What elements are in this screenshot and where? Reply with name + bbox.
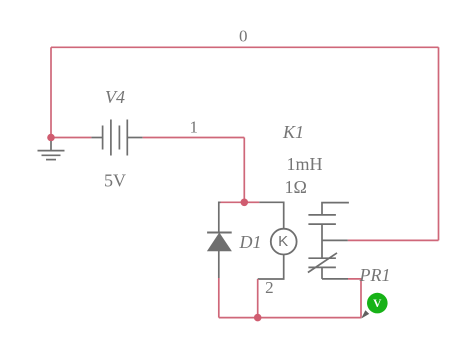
probe PR1 letter V (373, 298, 382, 310)
relay coil K1 pin top (259, 202, 283, 228)
junction node 1 branch (241, 199, 249, 207)
wire diode to bottom net 2 (218, 278, 220, 318)
junction ground node (47, 134, 55, 142)
wire net 0 left vertical (50, 47, 52, 137)
wire net 0 top horizontal (51, 46, 439, 48)
wire net 0 right vertical (438, 47, 440, 240)
wire net 0 middle horizontal to relay contact (348, 239, 439, 241)
wire net 1 to diode branch (220, 201, 245, 203)
battery V4 (91, 120, 142, 156)
value label 1mH (287, 154, 323, 174)
net label 0 (239, 27, 248, 46)
svg-text:0: 0 (239, 27, 248, 46)
relay contact movable plate upper (308, 257, 336, 259)
wire net 2 bottom horizontal (219, 317, 361, 319)
label V4 (105, 87, 125, 107)
value label 1 ohm (285, 177, 307, 197)
net label 1 (190, 118, 199, 137)
svg-text:1: 1 (190, 118, 199, 137)
svg-text:K1: K1 (282, 122, 304, 142)
svg-text:1mH: 1mH (287, 154, 323, 174)
svg-text:5V: 5V (104, 171, 126, 191)
label K1 (282, 122, 304, 142)
wire coil to bottom net 2 (257, 279, 259, 318)
svg-text:V: V (373, 298, 382, 310)
relay contact movable plate lower (308, 266, 336, 268)
wire net 1 horizontal from battery (143, 137, 245, 139)
label D1 (239, 232, 262, 252)
svg-text:K: K (278, 233, 288, 250)
relay contact center stem (321, 224, 323, 258)
junction node 2 (254, 314, 262, 322)
relay coil K1 pin bottom (258, 255, 284, 280)
diode D1 (207, 202, 232, 278)
relay coil letter K (278, 233, 288, 250)
svg-text:V4: V4 (105, 87, 125, 107)
relay contact bottom stem (321, 267, 323, 279)
wire net 1 vertical down (243, 138, 245, 203)
svg-text:D1: D1 (239, 232, 262, 252)
svg-text:1Ω: 1Ω (285, 177, 307, 197)
relay contact fixed plate upper (308, 214, 336, 216)
relay contact fixed plate lower (308, 223, 336, 225)
net label 2 (265, 278, 274, 297)
relay coil K1 circle (271, 229, 297, 255)
probe PR1 circle (367, 293, 388, 314)
wire battery negative to ground node (51, 137, 91, 139)
ground (38, 141, 65, 160)
probe PR1 tail (361, 310, 369, 318)
label PR1 (359, 265, 391, 285)
relay contact K1 top lead (322, 203, 349, 215)
svg-text:PR1: PR1 (359, 265, 391, 285)
value label 5V (104, 171, 126, 191)
relay contact middle pin (322, 239, 348, 241)
wire net 1 to coil branch (244, 201, 259, 203)
relay contact bottom pin (322, 278, 348, 280)
relay contact armature diagonal (308, 253, 337, 273)
wire contact bottom to probe corner (348, 279, 361, 318)
svg-text:2: 2 (265, 278, 274, 297)
